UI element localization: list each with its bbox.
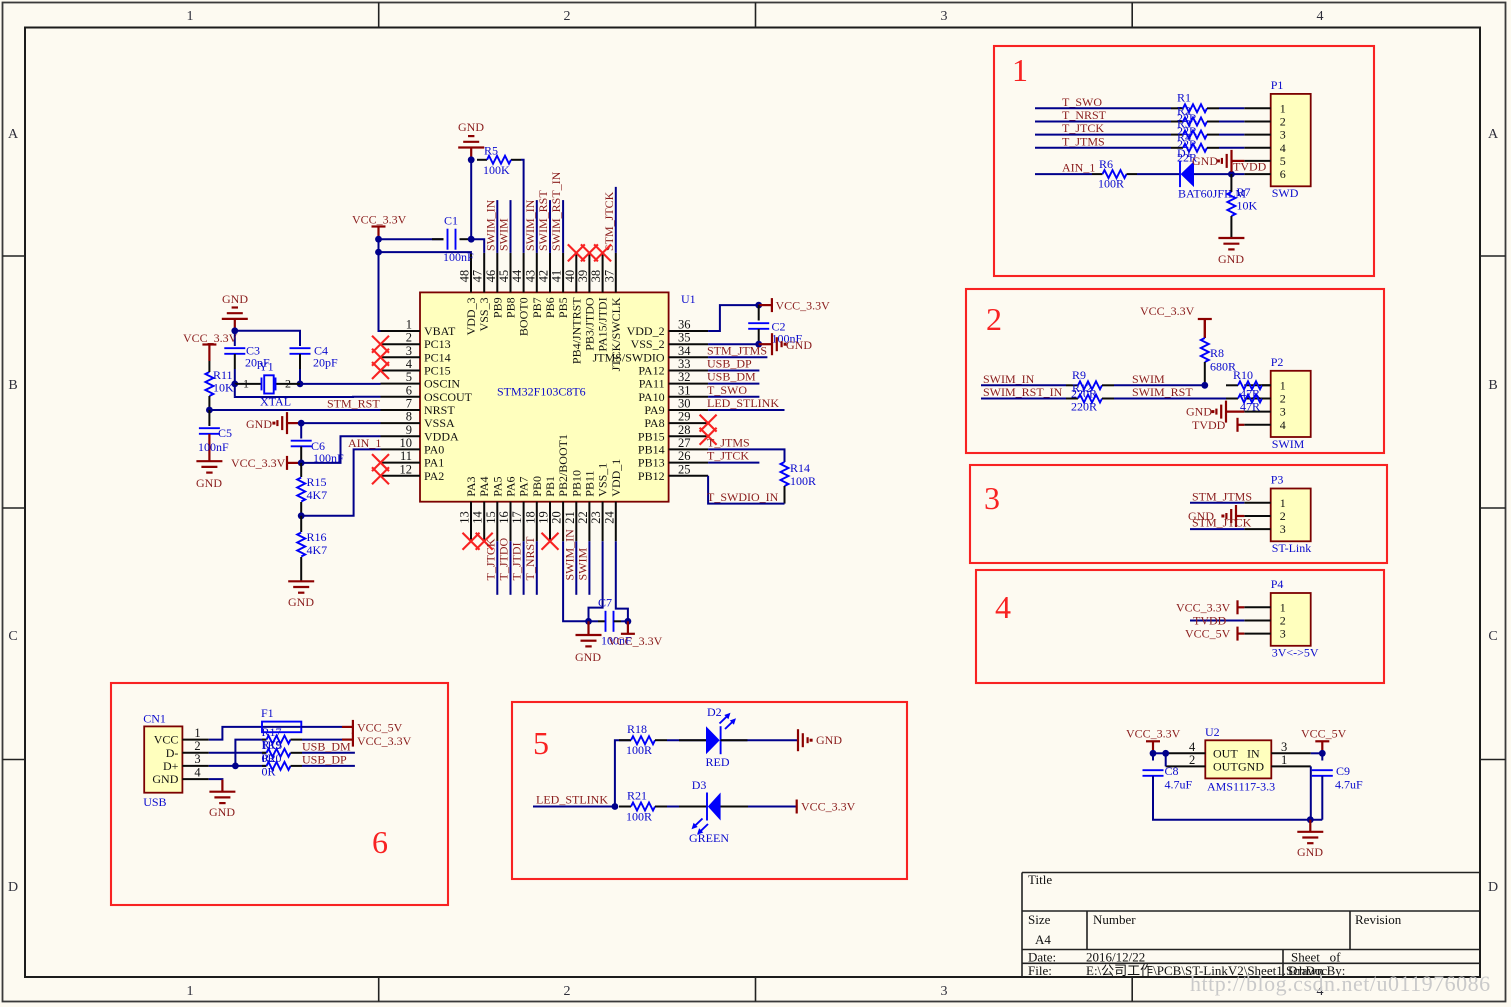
svg-text:21: 21 <box>563 511 577 524</box>
svg-text:RED: RED <box>706 755 730 769</box>
wire U2 pin2 jog to node <box>1165 753 1167 766</box>
svg-text:PA11: PA11 <box>639 377 665 391</box>
net AIN_1 to PA0 pin10 <box>301 449 380 515</box>
net TVDD (P4 pin2) <box>1190 620 1244 622</box>
svg-text:1: 1 <box>187 984 194 999</box>
svg-text:R2: R2 <box>1177 104 1191 118</box>
LED D2 RED (pointing right) <box>706 726 720 754</box>
net USB_DP <box>302 765 355 767</box>
svg-text:U2: U2 <box>1205 725 1220 739</box>
svg-text:VCC_5V: VCC_5V <box>1301 727 1347 741</box>
wire gnd node to C4 top <box>235 331 300 346</box>
svg-text:18: 18 <box>523 511 537 524</box>
svg-text:Title: Title <box>1028 872 1052 887</box>
wire D- pin2 to R19 <box>209 752 266 754</box>
wire D2 to GND <box>721 739 798 741</box>
svg-text:PA15/JTDI: PA15/JTDI <box>596 297 610 351</box>
svg-text:SWIM: SWIM <box>1272 437 1305 451</box>
svg-text:PB7: PB7 <box>530 297 544 318</box>
svg-text:T_SWO: T_SWO <box>707 383 747 397</box>
svg-text:3V<->5V: 3V<->5V <box>1272 646 1319 660</box>
red group box 1 <box>994 46 1374 276</box>
svg-text:0R: 0R <box>262 765 276 779</box>
svg-text:VSS_1: VSS_1 <box>596 463 610 497</box>
svg-text:VSS_3: VSS_3 <box>477 297 491 331</box>
svg-text:ST-Link: ST-Link <box>1272 541 1312 555</box>
svg-text:34: 34 <box>678 344 691 358</box>
svg-text:20: 20 <box>550 511 564 524</box>
wire/net SWIM_RST on top pin <box>549 200 551 253</box>
svg-text:USB_DM: USB_DM <box>302 739 351 753</box>
svg-text:VCC_3.3V: VCC_3.3V <box>1176 600 1231 614</box>
svg-text:3: 3 <box>406 344 412 358</box>
wire/net SWIM on top pin <box>510 200 512 253</box>
svg-text:2: 2 <box>564 984 571 999</box>
svg-text:PB10: PB10 <box>569 470 583 497</box>
svg-text:R1: R1 <box>1177 90 1191 104</box>
capacitor C8 4.7uF <box>1152 753 1154 760</box>
capacitor C5 100nF <box>208 410 210 426</box>
resistor R9 220R <box>1066 384 1078 386</box>
capacitor C3 20pF <box>234 331 236 346</box>
svg-text:VBAT: VBAT <box>424 324 456 338</box>
svg-text:SWIM: SWIM <box>497 218 511 251</box>
svg-text:OSCOUT: OSCOUT <box>424 390 473 404</box>
power VCC_3.3V (USB) <box>352 733 354 747</box>
svg-text:33: 33 <box>678 357 691 371</box>
svg-text:PA4: PA4 <box>477 476 491 496</box>
svg-text:36: 36 <box>678 318 691 332</box>
svg-text:PA9: PA9 <box>644 403 664 417</box>
svg-text:22: 22 <box>576 511 590 524</box>
svg-text:STM32F103C8T6: STM32F103C8T6 <box>497 385 586 399</box>
svg-text:GREEN: GREEN <box>689 831 729 845</box>
svg-text:PA8: PA8 <box>644 416 664 430</box>
svg-text:R3: R3 <box>1177 117 1191 131</box>
red group box 5 <box>512 702 907 879</box>
svg-text:19: 19 <box>537 511 551 524</box>
wire/net T_JTDO on bottom pin <box>510 541 512 595</box>
svg-text:A4: A4 <box>1035 932 1051 947</box>
svg-text:12: 12 <box>400 462 413 476</box>
svg-text:R16: R16 <box>307 530 327 544</box>
svg-text:VDD_3: VDD_3 <box>464 297 478 335</box>
svg-text:C: C <box>1488 629 1497 644</box>
svg-text:45: 45 <box>497 270 511 283</box>
svg-text:PC14: PC14 <box>424 350 451 364</box>
svg-text:VCC_3.3V: VCC_3.3V <box>1126 727 1181 741</box>
svg-text:SWIM_IN: SWIM_IN <box>483 199 497 251</box>
svg-text:T_NRST: T_NRST <box>1062 108 1107 122</box>
U1 bottom pins 13-24 <box>470 502 472 542</box>
resistor R15 4K7 <box>300 463 302 477</box>
wire/net T_NRST on bottom pin <box>536 541 538 595</box>
svg-text:220R: 220R <box>1071 400 1097 414</box>
svg-text:1: 1 <box>243 377 249 391</box>
svg-text:PB5: PB5 <box>556 297 570 318</box>
svg-text:3: 3 <box>1280 627 1286 641</box>
svg-text:7: 7 <box>406 397 412 411</box>
svg-text:C5: C5 <box>218 426 232 440</box>
svg-text:4: 4 <box>194 765 201 779</box>
svg-text:10: 10 <box>400 436 413 450</box>
svg-text:6: 6 <box>406 383 412 397</box>
svg-text:1: 1 <box>406 318 412 332</box>
svg-text:C9: C9 <box>1336 764 1350 778</box>
svg-text:D: D <box>1488 880 1498 895</box>
resistor R17 1K5 <box>262 739 267 741</box>
svg-text:VCC_3.3V: VCC_3.3V <box>608 634 663 648</box>
svg-text:PA2: PA2 <box>424 469 444 483</box>
svg-text:6: 6 <box>1280 167 1286 181</box>
wire D3 to VCC_3.3V <box>721 806 797 808</box>
svg-text:4.7uF: 4.7uF <box>1165 778 1193 792</box>
resistor R18 100R <box>619 739 631 741</box>
svg-text:T_JTDO: T_JTDO <box>497 538 511 581</box>
svg-text:SWIM_RST: SWIM_RST <box>536 190 550 251</box>
svg-text:PB12: PB12 <box>638 469 665 483</box>
svg-text:SWIM_IN: SWIM_IN <box>523 199 537 251</box>
power VCC_3.3V (D3) <box>796 800 798 814</box>
svg-text:4K7: 4K7 <box>307 543 328 557</box>
svg-text:P1: P1 <box>1271 78 1284 92</box>
wire VDDA pin9 to VCC node <box>301 436 380 463</box>
svg-text:USB_DM: USB_DM <box>707 370 756 384</box>
svg-text:D1: D1 <box>1177 146 1192 160</box>
svg-text:1: 1 <box>1280 496 1286 510</box>
resistor R3 22R <box>1171 134 1183 136</box>
svg-text:C8: C8 <box>1165 764 1179 778</box>
svg-text:GND: GND <box>222 292 248 306</box>
svg-text:TVDD: TVDD <box>1192 418 1226 432</box>
svg-text:3: 3 <box>1281 740 1287 754</box>
svg-text:GND: GND <box>288 595 314 609</box>
svg-text:STM_JTMS: STM_JTMS <box>707 343 767 357</box>
svg-text:OSCIN: OSCIN <box>424 377 460 391</box>
net USB_DP <box>708 370 759 372</box>
net STM_JTMS <box>708 356 767 358</box>
svg-text:T_JTCK: T_JTCK <box>1062 121 1104 135</box>
net T_JTCK pin26 <box>708 462 759 464</box>
svg-text:31: 31 <box>678 383 691 397</box>
svg-text:SWIM_IN: SWIM_IN <box>983 372 1035 386</box>
svg-text:PB2/BOOT1: PB2/BOOT1 <box>556 434 570 497</box>
svg-text:43: 43 <box>523 270 537 283</box>
crystal Y1 XTAL <box>231 381 238 388</box>
svg-text:1: 1 <box>1280 101 1286 115</box>
capacitor C9 4.7uF <box>1321 753 1323 760</box>
no-ERC X pins 11,12 (PA1,PA2) <box>372 454 389 471</box>
ground (C7) <box>587 621 589 635</box>
svg-text:VCC_3.3V: VCC_3.3V <box>801 800 856 814</box>
title block <box>1022 873 1480 978</box>
svg-text:PB11: PB11 <box>582 470 596 496</box>
svg-text:VDD_2: VDD_2 <box>627 324 665 338</box>
svg-text:100R: 100R <box>626 810 652 824</box>
resistor R13 47R <box>1226 398 1238 400</box>
svg-text:44: 44 <box>510 269 524 282</box>
resistor R10 47R <box>1226 384 1238 386</box>
resistor R4 22R <box>1171 147 1183 149</box>
svg-text:GND: GND <box>786 338 812 352</box>
svg-text:R18: R18 <box>627 722 647 736</box>
svg-text:48: 48 <box>458 270 472 283</box>
svg-text:GND: GND <box>209 805 235 819</box>
wire/net SWIM on bottom pin <box>588 541 590 595</box>
svg-text:PB4/JNTRST: PB4/JNTRST <box>569 297 583 364</box>
ground (USB) <box>209 791 235 793</box>
wire GND node down to C1 node <box>470 160 472 239</box>
svg-text:16: 16 <box>497 511 511 524</box>
svg-text:VCC_3.3V: VCC_3.3V <box>776 299 831 313</box>
svg-text:30: 30 <box>678 397 691 411</box>
power VCC_3.3V (C2) <box>755 302 762 309</box>
svg-text:100R: 100R <box>1098 177 1124 191</box>
svg-text:SWIM_RST: SWIM_RST <box>1132 385 1193 399</box>
svg-text:PA1: PA1 <box>424 456 444 470</box>
svg-text:PB13: PB13 <box>638 456 665 470</box>
wire VDD_2 pin36 to VCC node <box>708 305 759 331</box>
svg-text:P3: P3 <box>1271 473 1284 487</box>
svg-text:B: B <box>1488 378 1497 393</box>
svg-text:GND: GND <box>246 417 272 431</box>
svg-text:C7: C7 <box>598 596 612 610</box>
svg-text:D: D <box>8 880 18 895</box>
U1 right pins 36-25 <box>669 330 709 332</box>
wire VDD_1 pin24 to vcc node <box>616 541 628 621</box>
svg-text:24: 24 <box>602 510 616 523</box>
wire/net SWIM_IN on top pin <box>536 200 538 253</box>
svg-text:R6: R6 <box>1099 157 1113 171</box>
svg-text:PB1: PB1 <box>543 476 557 497</box>
svg-text:PA6: PA6 <box>504 476 518 496</box>
svg-text:OUT: OUT <box>1213 759 1238 773</box>
svg-text:14: 14 <box>471 510 485 523</box>
svg-text:VCC_5V: VCC_5V <box>1185 627 1231 641</box>
svg-text:LED_STLINK: LED_STLINK <box>536 793 608 807</box>
svg-text:USB_DP: USB_DP <box>707 357 752 371</box>
wire crystal pin1 to OSCOUT pin6 <box>234 384 236 397</box>
svg-text:R20: R20 <box>262 751 282 765</box>
svg-text:VCC_3.3V: VCC_3.3V <box>1140 304 1195 318</box>
svg-text:40: 40 <box>563 270 577 283</box>
svg-text:BOOT0: BOOT0 <box>517 297 531 336</box>
capacitor C1 100nF <box>379 238 444 240</box>
wire/net STM_JTCK on top pin <box>615 187 617 253</box>
power VCC_5V (P4 pin3) <box>1236 627 1238 641</box>
svg-text:PC13: PC13 <box>424 337 451 351</box>
svg-text:3: 3 <box>1280 522 1286 536</box>
svg-text:R9: R9 <box>1072 368 1086 382</box>
svg-text:42: 42 <box>537 270 551 283</box>
resistor R12 220R <box>1066 398 1078 400</box>
svg-text:GND: GND <box>458 120 484 134</box>
wire PB2/BOOT1 pin20 down to C7 gnd row <box>563 541 588 621</box>
svg-text:T_JTMS: T_JTMS <box>1062 134 1105 148</box>
svg-text:5: 5 <box>406 370 412 384</box>
svg-text:2: 2 <box>1280 115 1286 129</box>
svg-text:GND: GND <box>1186 405 1212 419</box>
svg-text:R10: R10 <box>1233 368 1253 382</box>
svg-text:SWIM: SWIM <box>575 548 589 581</box>
svg-text:2: 2 <box>285 377 291 391</box>
svg-text:2: 2 <box>986 301 1002 337</box>
svg-text:5: 5 <box>1280 154 1286 168</box>
svg-text:SWIM_IN: SWIM_IN <box>562 529 576 581</box>
power VCC_5V (USB) <box>352 720 354 734</box>
power VCC_3.3V (pin24) <box>621 633 635 635</box>
svg-text:R4: R4 <box>1177 130 1191 144</box>
no-ERC X pins 13,14,19 <box>463 533 480 550</box>
svg-text:1: 1 <box>187 9 194 24</box>
svg-text:SWIM: SWIM <box>1132 372 1165 386</box>
svg-text:11: 11 <box>400 449 412 463</box>
wire GND pin4 down <box>209 778 223 781</box>
svg-text:PB8: PB8 <box>504 297 518 318</box>
no-ERC X pins 2,3,4 (PC13-PC15) <box>372 336 389 353</box>
svg-text:4.7uF: 4.7uF <box>1335 778 1363 792</box>
svg-text:41: 41 <box>550 270 564 283</box>
connector P1 SWD <box>1271 94 1311 186</box>
wire/net SWIM_RST_IN on top pin <box>562 200 564 253</box>
svg-text:37: 37 <box>602 270 616 283</box>
wire/net T_JTCK on bottom pin <box>496 541 498 595</box>
U1 top pins 48-37 <box>470 253 472 293</box>
svg-text:3: 3 <box>941 984 948 999</box>
GND (P3 pin2) sideways <box>1236 515 1244 517</box>
svg-text:STM_JTMS: STM_JTMS <box>1192 489 1252 503</box>
svg-text:GND: GND <box>575 650 601 664</box>
svg-text:4: 4 <box>406 357 413 371</box>
svg-text:1: 1 <box>1281 753 1287 767</box>
svg-text:F1: F1 <box>261 706 274 720</box>
svg-text:A: A <box>1488 127 1499 142</box>
net USB_DM <box>708 383 759 385</box>
svg-text:VDD_1: VDD_1 <box>609 459 623 497</box>
GND (P2 pin3) sideways <box>1226 411 1244 413</box>
connector CN1 USB <box>144 726 182 792</box>
wire VCC col down to VBAT <box>379 239 381 331</box>
svg-text:13: 13 <box>458 511 472 524</box>
svg-text:100R: 100R <box>790 474 816 488</box>
svg-text:LED_STLINK: LED_STLINK <box>707 396 779 410</box>
resistor R1 22R <box>1171 107 1183 109</box>
svg-text:100nF: 100nF <box>198 440 229 454</box>
wire crystal to OSCIN pin5 <box>300 383 381 385</box>
svg-text:3: 3 <box>941 9 948 24</box>
svg-text:http://blog.csdn.net/u01197608: http://blog.csdn.net/u011976086 <box>1190 971 1491 996</box>
svg-text:R15: R15 <box>307 475 327 489</box>
net LED_STLINK <box>708 409 784 411</box>
svg-text:PA10: PA10 <box>638 390 664 404</box>
svg-text:AIN_1: AIN_1 <box>1062 161 1095 175</box>
svg-text:PA5: PA5 <box>490 476 504 496</box>
resistor R16 4K7 <box>300 516 302 532</box>
svg-text:T_JTCK: T_JTCK <box>483 538 497 580</box>
resistor R14 100R <box>781 462 789 486</box>
svg-text:100K: 100K <box>483 163 510 177</box>
svg-text:T_JTMS: T_JTMS <box>707 435 750 449</box>
svg-text:Size: Size <box>1028 912 1051 927</box>
svg-text:1: 1 <box>1012 52 1028 88</box>
GND (D2) sideways right <box>797 729 799 751</box>
svg-text:3: 3 <box>984 480 1000 516</box>
svg-text:R12: R12 <box>1072 381 1092 395</box>
svg-text:25: 25 <box>678 462 691 476</box>
resistor R21 100R <box>619 806 631 808</box>
MCU U1 STM32F103C8T6 <box>420 292 669 501</box>
net T_JTMS pin27 + wire to R14 <box>708 449 784 462</box>
wire D+ junction up to R17 row <box>235 740 266 766</box>
svg-text:3: 3 <box>1280 405 1286 419</box>
svg-text:USB: USB <box>143 795 166 809</box>
svg-text:PB15: PB15 <box>638 429 665 443</box>
wire VCC row2 to VDD_3 pin48 <box>379 251 472 254</box>
svg-text:26: 26 <box>678 449 691 463</box>
svg-text:GND: GND <box>1238 759 1264 773</box>
svg-text:PB0: PB0 <box>530 476 544 497</box>
svg-text:STM_JTCK: STM_JTCK <box>602 191 616 251</box>
svg-text:P2: P2 <box>1271 355 1284 369</box>
svg-text:SWIM_RST_IN: SWIM_RST_IN <box>983 385 1063 399</box>
svg-text:GND: GND <box>816 733 842 747</box>
svg-text:2: 2 <box>564 9 571 24</box>
svg-text:3: 3 <box>1280 128 1286 142</box>
svg-text:B: B <box>8 378 17 393</box>
wire R5 to BOOT0 pin44 <box>521 160 524 253</box>
capacitor C4 20pF <box>290 347 311 349</box>
svg-text:47: 47 <box>471 270 485 283</box>
resistor R19 0R <box>262 752 267 754</box>
svg-text:39: 39 <box>576 270 590 283</box>
svg-text:4: 4 <box>995 589 1011 625</box>
svg-text:PB3/JTDO: PB3/JTDO <box>582 297 596 351</box>
svg-text:10K: 10K <box>1237 199 1258 213</box>
U1 left pins 1-12 <box>381 330 421 332</box>
wire junction up to R18 row <box>615 740 631 806</box>
svg-text:PB9: PB9 <box>490 297 504 318</box>
svg-text:2: 2 <box>194 739 200 753</box>
svg-text:SWD: SWD <box>1272 186 1299 200</box>
svg-text:R19: R19 <box>262 738 282 752</box>
diode D1 BAT60JFILM <box>1179 161 1181 187</box>
svg-text:4: 4 <box>1189 740 1196 754</box>
svg-text:PB6: PB6 <box>543 297 557 318</box>
ground (R16) <box>288 580 314 582</box>
svg-text:VCC_5V: VCC_5V <box>357 720 403 734</box>
svg-text:JTCK/SWCLK: JTCK/SWCLK <box>609 297 623 371</box>
svg-text:GND: GND <box>1297 845 1323 859</box>
connector P3 ST-Link <box>1271 489 1311 542</box>
svg-text:6: 6 <box>372 824 388 860</box>
svg-text:PA3: PA3 <box>464 476 478 496</box>
svg-text:P4: P4 <box>1271 577 1284 591</box>
svg-text:VCC: VCC <box>154 733 179 747</box>
svg-text:AIN_1: AIN_1 <box>348 436 381 450</box>
svg-text:2: 2 <box>1189 753 1195 767</box>
svg-text:5: 5 <box>533 725 549 761</box>
wire fuse to VCC_5V <box>301 726 342 728</box>
net STM_RST / NRST pin7 <box>209 409 380 411</box>
svg-text:VSS_2: VSS_2 <box>631 337 665 351</box>
regulator U2 AMS1117-3.3 <box>1205 740 1271 778</box>
wire/net T_JTDI on bottom pin <box>523 541 525 595</box>
svg-text:R7: R7 <box>1237 185 1251 199</box>
resistor R8 680R <box>1204 319 1206 338</box>
svg-text:PB14: PB14 <box>638 442 665 456</box>
svg-text:GND: GND <box>152 772 178 786</box>
svg-text:Revision: Revision <box>1355 912 1402 927</box>
